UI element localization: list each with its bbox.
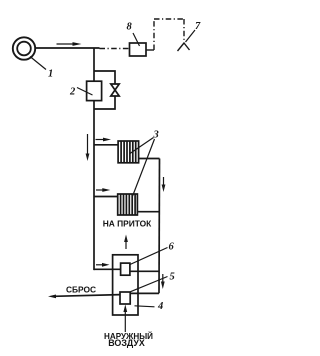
leader line to label 1 (30, 57, 46, 70)
svg-text:СБРОС: СБРОС (66, 284, 96, 294)
wire: heat exchanger 3a outlet (139, 158, 160, 160)
wire: main line down from junction (93, 48, 95, 81)
flow arrow right (branch 3a) (96, 138, 112, 142)
heater 2 (87, 81, 102, 100)
svg-text:8: 8 (127, 22, 133, 33)
flow arrowhead left (СБРОС) (48, 295, 56, 299)
flow arrow right (branch 3b) (96, 188, 110, 192)
flow arrow down (right line) (162, 177, 166, 192)
svg-text:НА ПРИТОК: НА ПРИТОК (103, 219, 152, 229)
wire: branch to heat exchanger 3a (94, 144, 119, 146)
leader line to label 6 (130, 248, 168, 265)
sensor 7 (right leg) (184, 43, 190, 50)
air chamber 4 (113, 255, 138, 315)
impulse line (dash-dot) horizontal top right (154, 18, 184, 20)
svg-text:1: 1 (48, 69, 53, 80)
leader line to label 8 (133, 33, 140, 46)
impulse line (dash-dot) down to sensor 7 (183, 19, 185, 43)
impulse line (dash-dot) to regulator 8 (100, 48, 130, 50)
wire: bypass top (94, 71, 115, 84)
flow arrow right (into damper 6) (96, 263, 110, 267)
leader line to label 7 (186, 30, 196, 42)
wire: bypass bottom (94, 96, 115, 109)
wire: regulator 8 output (146, 49, 154, 51)
svg-text:2: 2 (69, 87, 76, 98)
regulator 8 (130, 43, 147, 56)
damper 6 (121, 263, 130, 275)
wire: exhaust line СБРОС (54, 295, 120, 297)
heat exchanger 3b (118, 194, 138, 215)
valve (lower triangle) (111, 90, 119, 96)
flow arrow down (right of chamber) (161, 274, 165, 289)
damper 5 (120, 292, 130, 304)
svg-text:5: 5 (170, 272, 175, 283)
leader line to label 5 (131, 277, 168, 292)
flow arrow down (left line) (86, 134, 90, 161)
wire: main line below heater (93, 101, 95, 271)
leader line label 3 to exchanger 3a (130, 138, 154, 154)
wire: damper 6 to right line (130, 270, 159, 272)
wire: right line into damper 5 (130, 292, 159, 294)
leader line to label 2 (77, 88, 93, 96)
wire: branch to heat exchanger 3b (94, 196, 118, 198)
leader line label 3 to exchanger 3b (133, 139, 155, 196)
wire: right return line (158, 159, 161, 294)
impulse line (dash-dot) up from regulator (153, 19, 155, 50)
svg-text:ВОЗДУХ: ВОЗДУХ (108, 338, 145, 348)
flow arrow up (outdoor air) (123, 305, 127, 333)
valve (upper triangle) (111, 84, 119, 90)
sensor 7 (left leg) (178, 43, 185, 51)
wire: into damper 6 (94, 268, 121, 270)
svg-text:4: 4 (157, 301, 163, 312)
wire: pump outlet horizontal (35, 47, 100, 49)
leader line to label 4 (135, 306, 155, 307)
pump 1 (outer circle) (13, 37, 35, 59)
svg-text:3: 3 (153, 130, 159, 141)
svg-text:6: 6 (169, 242, 175, 253)
svg-text:7: 7 (195, 21, 201, 32)
wire: heat exchanger 3b outlet (137, 211, 159, 213)
flow arrow up (to supply) (124, 235, 128, 250)
heat exchanger 3a (118, 141, 139, 163)
flow arrow right (top) (57, 42, 82, 46)
pump 1 (inner circle) (17, 42, 31, 56)
